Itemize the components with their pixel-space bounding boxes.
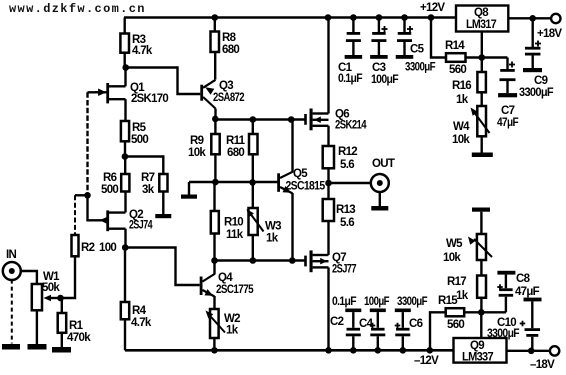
wire Q6 source down — [327, 126, 329, 146]
capacitor C10 3300uF — [487, 298, 542, 351]
ground W5 — [472, 208, 490, 212]
ground R7 — [155, 214, 171, 218]
ground R1 — [52, 347, 71, 353]
potentiometer W5 10k — [443, 212, 492, 264]
transistor Q6 2SK214 — [304, 109, 367, 132]
svg-text:R2: R2 — [81, 242, 95, 254]
wire LM317 out — [508, 15, 551, 22]
svg-text:W4: W4 — [453, 121, 470, 133]
wire W1 wiper — [44, 295, 64, 302]
capacitor C7 47uF — [482, 58, 519, 130]
capacitor C5 3300uF — [396, 14, 436, 73]
svg-text:500: 500 — [131, 134, 148, 146]
resistor R4 4.7k — [121, 248, 152, 330]
resistor R15 560 — [427, 295, 482, 354]
svg-text:R14: R14 — [445, 40, 465, 52]
wire R2 to wiper node — [62, 256, 76, 298]
svg-text:11k: 11k — [226, 229, 244, 241]
resistor R17 1k — [447, 260, 486, 312]
connector IN jack — [3, 249, 21, 280]
label -12V — [414, 355, 439, 367]
node ADJ337 junction — [478, 309, 485, 316]
svg-text:R16: R16 — [452, 80, 471, 92]
connector OUT jack — [371, 158, 395, 192]
wire R1 bottom — [61, 333, 63, 347]
svg-text:Q3: Q3 — [219, 80, 233, 92]
svg-text:C6: C6 — [409, 318, 423, 330]
wire to OUT — [329, 182, 372, 184]
watermark text — [9, 2, 146, 16]
svg-text:R11: R11 — [226, 135, 246, 147]
svg-text:1k: 1k — [456, 290, 469, 302]
resistor R6 500 — [101, 157, 129, 197]
ground mid — [181, 182, 197, 199]
svg-text:R8: R8 — [222, 32, 237, 44]
resistor R14 560 — [445, 40, 466, 76]
resistor R2 100 — [72, 195, 117, 256]
potentiometer W3 1k — [247, 182, 282, 261]
node OUT junction — [325, 180, 332, 187]
wire upper gate bus — [215, 116, 305, 123]
wire R7 bottom — [162, 192, 164, 215]
wire W1 bottom — [36, 310, 38, 344]
resistor R7 3k — [141, 172, 168, 196]
svg-text:5.6: 5.6 — [340, 217, 354, 229]
connector -18V terminal — [530, 346, 559, 371]
svg-text:3300μF: 3300μF — [397, 296, 428, 308]
wire R6 to Q2 — [124, 192, 126, 213]
svg-text:2SC1775: 2SC1775 — [216, 284, 254, 296]
svg-text:680: 680 — [222, 44, 239, 56]
svg-text:47μF: 47μF — [515, 286, 540, 298]
svg-text:OUT: OUT — [372, 158, 395, 170]
svg-text:500: 500 — [101, 184, 118, 196]
capacitor C8 47uF — [481, 271, 539, 313]
svg-text:R17: R17 — [447, 276, 466, 288]
svg-text:R9: R9 — [190, 135, 204, 147]
transistor Q7 2SJ77 — [304, 250, 356, 275]
svg-text:3300μF: 3300μF — [405, 62, 436, 74]
transistor Q2 2SJ74 — [99, 209, 153, 232]
wire R5 to node — [122, 141, 129, 160]
svg-text:2SJ74: 2SJ74 — [129, 220, 153, 232]
svg-text:R5: R5 — [132, 122, 147, 134]
svg-text:+18V: +18V — [537, 28, 562, 40]
wire LM337 ADJ — [480, 312, 482, 338]
svg-text:1k: 1k — [226, 325, 239, 337]
regulator Q8 LM317 — [456, 6, 508, 32]
wire OUT ground stem — [379, 192, 381, 206]
svg-text:C5: C5 — [410, 44, 425, 56]
svg-text:R15: R15 — [438, 295, 458, 307]
svg-text:10k: 10k — [188, 147, 206, 159]
svg-text:0.1μF: 0.1μF — [332, 296, 357, 308]
svg-text:3k: 3k — [142, 184, 155, 196]
resistor R9 10k — [188, 120, 220, 183]
resistor R3 4.7k — [120, 18, 152, 68]
wire Q1 source to R5 — [124, 99, 126, 121]
resistor R11 680 — [226, 120, 258, 183]
svg-text:Q9: Q9 — [470, 340, 484, 352]
wire W2 bottom — [211, 338, 218, 354]
svg-text:10k: 10k — [452, 134, 470, 146]
transistor Q3 2SA872 — [200, 80, 244, 109]
wire R4 bottom — [124, 319, 126, 350]
svg-text:47μF: 47μF — [497, 117, 519, 129]
capacitor C4 100uF — [359, 296, 390, 354]
svg-text:R13: R13 — [336, 204, 355, 216]
svg-text:10k: 10k — [443, 252, 461, 264]
svg-text:Q7: Q7 — [332, 252, 346, 264]
svg-text:R4: R4 — [132, 305, 147, 317]
wire LM317 ADJ — [481, 32, 483, 58]
wire Q3 collector — [212, 109, 219, 123]
svg-text:2SK214: 2SK214 — [335, 120, 367, 132]
wire Q4 collector up — [213, 261, 215, 275]
svg-text:2SA872: 2SA872 — [213, 92, 244, 104]
svg-text:1k: 1k — [266, 233, 279, 245]
wire bottom -12V bus — [125, 349, 454, 352]
svg-text:+12V: +12V — [420, 2, 445, 14]
wire Q1 drain up — [122, 64, 129, 86]
potentiometer W4 10k — [452, 92, 490, 146]
svg-text:2SJ77: 2SJ77 — [332, 264, 356, 276]
ground IN — [2, 344, 20, 350]
wire gate riser — [84, 92, 106, 198]
transistor Q5 2SC1815 — [277, 168, 325, 193]
potentiometer W1 — [32, 271, 61, 310]
svg-text:R6: R6 — [103, 172, 117, 184]
wire Q5 collector up — [291, 120, 293, 173]
svg-text:R12: R12 — [338, 146, 357, 158]
connector +18V terminal — [537, 14, 562, 40]
svg-text:–12V: –12V — [414, 355, 439, 367]
wire Q2 source down — [122, 229, 129, 251]
svg-text:Q5: Q5 — [293, 168, 308, 180]
svg-text:www.dzkfw.com.cn: www.dzkfw.com.cn — [9, 2, 146, 16]
svg-text:C9: C9 — [534, 75, 548, 87]
svg-text:100: 100 — [99, 242, 116, 254]
transistor Q4 2SC1775 — [200, 272, 254, 297]
svg-text:4.7k: 4.7k — [131, 317, 152, 329]
svg-text:W3: W3 — [265, 221, 281, 233]
wire LM337 out — [507, 348, 551, 355]
svg-text:Q4: Q4 — [218, 272, 233, 284]
capacitor C9 3300uF — [519, 18, 554, 99]
svg-text:3300μF: 3300μF — [487, 328, 520, 340]
wire Q6 drain up — [325, 14, 332, 113]
svg-text:R7: R7 — [141, 172, 155, 184]
wire IN shield — [11, 280, 13, 344]
svg-text:0.1μF: 0.1μF — [338, 73, 363, 85]
potentiometer W2 1k — [206, 309, 241, 338]
svg-text:C8: C8 — [516, 273, 531, 285]
svg-text:1k: 1k — [456, 94, 469, 106]
label +12V — [420, 2, 445, 14]
svg-text:50k: 50k — [42, 282, 60, 294]
svg-text:LM317: LM317 — [466, 19, 496, 31]
ground OUT — [371, 206, 388, 211]
wire node to R7 — [125, 157, 163, 175]
svg-text:R10: R10 — [224, 217, 243, 229]
wire Q1 to Q3 base — [126, 68, 201, 95]
ground W4 — [472, 153, 493, 158]
wire ground node bus — [189, 179, 278, 186]
wire R14 to ADJ node — [466, 54, 486, 61]
capacitor C1 0.1uF — [338, 14, 363, 85]
svg-text:2SK170: 2SK170 — [131, 93, 168, 105]
wire Q7 drain down — [325, 267, 332, 353]
svg-text:5.6: 5.6 — [340, 159, 354, 171]
svg-text:560: 560 — [449, 64, 466, 76]
capacitor C6 3300uF — [395, 296, 428, 354]
svg-text:C3: C3 — [372, 62, 386, 74]
wire node to R2 — [75, 194, 88, 196]
resistor R1 470k — [58, 298, 92, 344]
svg-text:Q8: Q8 — [474, 7, 489, 19]
svg-text:R1: R1 — [69, 320, 84, 332]
wire Q4 emitter down — [213, 296, 215, 309]
regulator Q9 LM337 — [454, 338, 507, 364]
capacitor C2 0.1uF — [330, 296, 361, 354]
svg-text:–18V: –18V — [530, 359, 555, 370]
ground W1 — [28, 344, 47, 350]
transistor Q1 2SK170 — [95, 82, 168, 105]
wire Q5 emitter down — [291, 193, 293, 261]
svg-text:4.7k: 4.7k — [132, 45, 153, 57]
resistor R10 11k — [211, 182, 244, 261]
wire IN to W1 — [20, 271, 37, 284]
svg-text:W5: W5 — [446, 238, 463, 250]
svg-text:3300μF: 3300μF — [519, 87, 554, 99]
resistor R16 1k — [452, 58, 486, 107]
capacitor C3 100uF — [370, 14, 398, 86]
svg-text:680: 680 — [227, 147, 244, 159]
resistor R8 680 — [211, 14, 240, 79]
wire lower gate bus — [211, 257, 304, 264]
resistor R13 5.6 — [323, 183, 356, 255]
svg-text:2SC1815: 2SC1815 — [286, 181, 326, 193]
svg-text:C7: C7 — [501, 105, 515, 117]
svg-text:LM337: LM337 — [462, 352, 493, 364]
wire R14 branch — [428, 14, 446, 57]
svg-text:560: 560 — [447, 319, 464, 331]
resistor R12 5.6 — [323, 146, 358, 183]
svg-text:100μF: 100μF — [364, 296, 390, 308]
svg-text:470k: 470k — [67, 332, 91, 344]
svg-text:IN: IN — [6, 249, 16, 261]
wire riser to Q2 gate — [88, 195, 100, 220]
svg-text:C4: C4 — [359, 318, 374, 330]
resistor R5 500 — [121, 121, 148, 146]
wire feedback to Q4 base — [125, 248, 200, 286]
svg-text:W2: W2 — [224, 313, 240, 325]
svg-text:100μF: 100μF — [371, 74, 399, 86]
wire W4 bottom — [481, 136, 483, 152]
svg-text:C2: C2 — [330, 316, 344, 328]
wire +12V top bus — [124, 16, 456, 18]
